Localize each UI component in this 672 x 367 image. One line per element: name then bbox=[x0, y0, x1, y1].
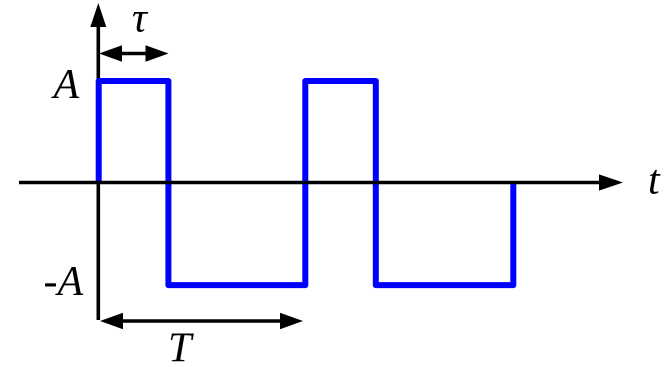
svg-text:τ: τ bbox=[132, 0, 149, 42]
t-axis arrowhead bbox=[599, 174, 623, 190]
svg-text:T: T bbox=[168, 326, 194, 367]
t-axis bbox=[19, 181, 603, 185]
square wave bbox=[99, 81, 514, 285]
y-axis bbox=[97, 22, 101, 320]
y-axis arrowhead bbox=[90, 3, 106, 27]
svg-text:t: t bbox=[648, 158, 661, 204]
svg-text:-A: -A bbox=[44, 259, 84, 305]
tau dimension arrow bbox=[108, 52, 160, 56]
T dimension arrow bbox=[110, 319, 293, 323]
svg-text:A: A bbox=[51, 62, 80, 108]
